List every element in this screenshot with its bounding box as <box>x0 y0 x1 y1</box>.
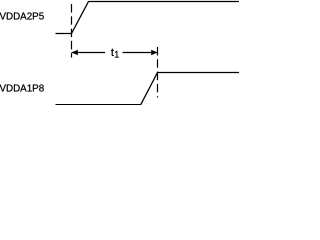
svg-text:1: 1 <box>114 50 119 60</box>
node left dashed reference line <box>71 4 73 58</box>
svg-text:VDDA1P8: VDDA1P8 <box>0 83 45 94</box>
wire VDDA1P8 waveform ramp and high segment <box>141 73 239 105</box>
wire t1 dimension line right segment <box>123 52 158 54</box>
wire t1 dimension line left segment <box>72 52 106 54</box>
node right arrowhead <box>151 50 157 56</box>
wire VDDA2P5 waveform <box>56 2 240 34</box>
svg-text:VDDA2P5: VDDA2P5 <box>0 11 45 22</box>
wire VDDA1P8 waveform low segment <box>56 104 141 106</box>
node right dashed reference line <box>157 47 159 98</box>
node left arrowhead <box>72 50 78 56</box>
